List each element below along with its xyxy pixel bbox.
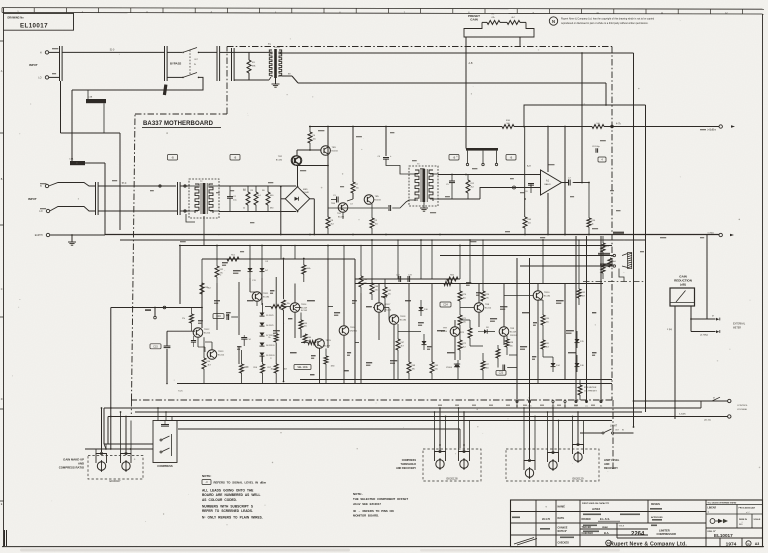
svg-text:B.A.: B.A. (604, 531, 609, 535)
svg-text:BC109: BC109 (510, 331, 517, 333)
capacitor C1A (70, 161, 85, 165)
svg-text:TOL. UNLESS OTHERWISE STATED: TOL. UNLESS OTHERWISE STATED (708, 502, 738, 505)
screen bus pins (467, 151, 469, 163)
svg-text:C15: C15 (153, 345, 158, 348)
wire T1 secondary bottom (282, 75, 292, 77)
svg-text:MONITOR BOARD.: MONITOR BOARD. (353, 514, 379, 518)
motherboard boundary extension below (612, 400, 614, 470)
sidechain col x217 (216, 283, 218, 330)
pot pins 1 (100, 452, 102, 454)
wire bridge left vertical (281, 198, 286, 200)
svg-text:15k: 15k (304, 325, 307, 327)
diode D15 (575, 339, 580, 343)
terminal ext meter upper (716, 318, 719, 321)
wire preset gain drop A-B (465, 37, 467, 149)
wire vertical x120 (119, 133, 121, 230)
title block right grid (705, 500, 707, 547)
sidechain link f (470, 345, 483, 347)
svg-text:TR10: TR10 (544, 292, 550, 294)
sidechain link a (295, 307, 301, 309)
svg-text:27k: 27k (182, 318, 185, 320)
stub drops far right (469, 240, 471, 284)
potentiometer RV5 (525, 469, 533, 477)
svg-text:TR17: TR17 (385, 304, 391, 306)
wire meter jog (619, 269, 624, 282)
board edge pin row (516, 400, 518, 402)
resistor R60 (303, 334, 307, 343)
resistor R12 shunt (466, 180, 470, 193)
bottom bus y416 (108, 416, 675, 418)
sheet border top band (2, 8, 764, 10)
terminal control lower (728, 415, 731, 418)
svg-text:APPROVED: APPROVED (651, 516, 663, 519)
drawing number box (4, 13, 74, 30)
title block outer frame (511, 500, 763, 547)
terminal control upper (728, 399, 731, 402)
wire C15 column (154, 308, 156, 317)
board edge pin row2 (516, 403, 518, 408)
diode chain D5 (260, 313, 265, 317)
connector bars bypass in (164, 46, 166, 81)
svg-text:NUMBERS WITH SUBSCRIPT S: NUMBERS WITH SUBSCRIPT S (202, 505, 253, 509)
svg-text:C24: C24 (443, 304, 448, 307)
sidechain col x361 (360, 293, 362, 384)
BA337 motherboard boundary (dash-dot) (227, 46, 612, 48)
wire T3 ground stem (423, 202, 425, 208)
capacitor C4 electrolytic (383, 157, 389, 159)
bottom bus left drop2 (107, 417, 109, 445)
meter M1 needle (676, 291, 686, 303)
svg-text:BYPASS: BYPASS (170, 62, 181, 66)
svg-text:EL10017: EL10017 (20, 23, 48, 30)
svg-text:10103: 10103 (274, 47, 280, 49)
pin opamp input (513, 186, 516, 189)
wire light right (614, 432, 634, 434)
capacitor C1B (86, 99, 106, 103)
bracket RV3 (435, 452, 446, 462)
svg-text:EARTH: EARTH (35, 234, 43, 237)
svg-text:REFERS TO SIGNAL LEVEL IN dBm: REFERS TO SIGNAL LEVEL IN dBm (214, 481, 267, 485)
sidechain col x328 (327, 259, 329, 348)
resistor R57 (274, 364, 278, 373)
transformer T1 core (274, 49, 277, 78)
bus wire y234 (105, 234, 719, 236)
svg-text:LO: LO (39, 211, 42, 213)
svg-text:EK20128: EK20128 (446, 477, 458, 481)
resistor R49 (523, 217, 527, 228)
wire y444 into bus (104, 444, 106, 449)
wire bypass lower loop (72, 77, 203, 90)
svg-text:N: N (552, 19, 555, 24)
transistor TR7 (450, 327, 460, 337)
bracket RV5 (524, 461, 535, 471)
svg-text:COMPRESS: COMPRESS (402, 459, 417, 462)
svg-text:47k: 47k (220, 272, 223, 274)
svg-text:REFER TO SCREENED LEADS.: REFER TO SCREENED LEADS. (202, 509, 253, 513)
sheet border bottom edge (2, 546, 764, 548)
right vertical x645 (645, 105, 647, 412)
resistor R24 series (444, 282, 452, 286)
svg-text:BC214: BC214 (485, 307, 492, 309)
transformer T1 primary winding (269, 50, 272, 77)
svg-text:EL10017: EL10017 (714, 533, 733, 538)
pots dashed box EK20129 (506, 449, 599, 481)
bus wire y245 (179, 245, 612, 247)
wire drop x635 to output line (633, 53, 635, 127)
sidechain link e (460, 307, 475, 309)
resistor R55 (240, 364, 244, 373)
sidechain bottom wire y379 (300, 379, 612, 381)
diode D3 (248, 268, 253, 272)
feedback loop rail (524, 105, 646, 127)
terminal output hot (719, 125, 722, 128)
svg-text:1k: 1k (592, 223, 594, 225)
svg-text:2N3702: 2N3702 (510, 335, 518, 337)
wire T3 out upper (438, 174, 541, 176)
transformer T2 primary winding (195, 184, 199, 213)
diode D8 lateral (484, 329, 487, 333)
capacitor C6 opamp (528, 183, 534, 185)
svg-text:BC109: BC109 (324, 345, 331, 347)
switch control (712, 397, 720, 401)
diode chain stem (262, 303, 264, 313)
switch bypass lower pole (182, 77, 184, 79)
resistor R58c (282, 300, 286, 310)
meter section boundary (dash-dot) (583, 281, 646, 283)
pots dashed box EK20128 (423, 449, 481, 481)
wire left feed drop (110, 308, 112, 450)
diode chain D9 (260, 353, 265, 357)
terminal output lo (719, 233, 722, 236)
capacitor C8 (595, 148, 597, 152)
resistor R9 (370, 218, 374, 228)
transistor TR13 (207, 350, 217, 360)
diode D13 (454, 364, 458, 367)
svg-text:NOTE:: NOTE: (202, 474, 211, 478)
wire drop x606 (605, 83, 607, 105)
resistor R72 (458, 340, 462, 350)
bus wire y240 (120, 239, 646, 241)
resistor chain right b (608, 258, 612, 267)
wire TR12 base link (167, 330, 195, 332)
stub drops right cluster (360, 246, 362, 271)
boxed label -B mid left (230, 155, 240, 161)
sidechain col x283 (283, 259, 285, 300)
resistor R6 (266, 192, 270, 205)
title block title grid (616, 523, 618, 538)
svg-text:PROG.ANGULAR: PROG.ANGULAR (739, 507, 756, 510)
wire input2 main to board (98, 185, 176, 187)
sidechain col x301 (300, 330, 302, 338)
svg-text:D: D (1, 398, 3, 401)
scan smudge bottom (20, 549, 350, 552)
transformer T3 primary winding (415, 170, 419, 201)
transistor TR5 (364, 195, 374, 205)
transistor TR16 (339, 326, 349, 336)
svg-text:NOTE:-: NOTE:- (353, 492, 363, 496)
transformer T2 secondary winding (209, 184, 213, 213)
transformer T3 core (422, 169, 425, 202)
wire vertical x105 (104, 163, 106, 235)
resistor R27 (481, 361, 485, 370)
sidechain vert x355 (354, 259, 356, 384)
resistor chain right c (601, 264, 605, 273)
compress switch cap (161, 424, 169, 426)
transformer T2 screen box (189, 179, 219, 218)
title block used-on grid (580, 511, 706, 513)
note 1 boxed symbol (202, 480, 211, 485)
sidechain vert x576 (575, 236, 577, 403)
right vertical x633 (633, 104, 635, 427)
svg-text:15k: 15k (356, 187, 359, 189)
svg-text:MR1: MR1 (303, 189, 308, 191)
svg-text:A/503: A/503 (592, 507, 600, 511)
capacitor C16 (226, 314, 228, 320)
svg-text:(dB): (dB) (680, 283, 686, 287)
svg-text:BC214: BC214 (218, 354, 225, 356)
terminal ext meter lower (716, 330, 719, 333)
wire x386 vertical (385, 127, 387, 157)
scan speckles (477, 409, 478, 410)
wire input1 lo (49, 76, 59, 78)
wire input2 lo (50, 207, 95, 212)
resistor R30 (541, 315, 545, 325)
svg-text:A-B: A-B (527, 165, 531, 168)
connector bars board edge out (216, 46, 218, 81)
wire emitter row y165 (296, 165, 328, 167)
resistor R7 (351, 182, 355, 193)
capacitor C23 (407, 276, 409, 282)
resistor R6a collector (308, 132, 312, 143)
wire control lower (675, 416, 728, 418)
wire preset gain top (482, 21, 487, 23)
sidechain left frame vert (179, 246, 181, 305)
sheet border right edge (762, 14, 764, 547)
pot pins EK20129 (528, 459, 530, 461)
svg-text:COMPRESSOR: COMPRESSOR (657, 532, 676, 536)
transformer T2 pin wires (190, 185, 198, 187)
resistor R63 (359, 276, 363, 287)
transistor TR3 (321, 146, 331, 156)
svg-text:LINEAR: LINEAR (708, 507, 717, 510)
resistor R56 (261, 364, 265, 373)
svg-text:C1A: C1A (69, 158, 74, 161)
potentiometer RV2 (122, 462, 130, 470)
svg-text:≤5mV SEE EZ10017: ≤5mV SEE EZ10017 (353, 502, 381, 506)
wire input1 to bypass (62, 51, 165, 53)
transistor TR12 (193, 328, 203, 338)
wire RV4 feeds (463, 412, 465, 450)
diode D10 (419, 307, 424, 311)
capacitor C17b (191, 340, 196, 342)
transformer T1 secondary winding (279, 50, 282, 77)
switch light (602, 432, 604, 434)
svg-text:74-S: 74-S (178, 391, 183, 393)
svg-text:(CR): (CR) (528, 406, 532, 408)
capacitor C5 coupling (449, 180, 455, 182)
svg-text:BC214: BC214 (204, 332, 211, 334)
resistor R5 (254, 192, 258, 205)
pot pins EK20128 (439, 450, 441, 452)
svg-text:DATE: DATE (558, 517, 565, 520)
wire y444 left (104, 443, 153, 445)
sidechain col x295 (294, 284, 296, 303)
bracket RV7 (573, 445, 584, 455)
connector bars input2 (95, 182, 97, 215)
resistor R54 (202, 358, 206, 369)
bottom bus y420 (160, 420, 612, 422)
svg-text:10048: 10048 (303, 192, 309, 194)
svg-text:ZS100: ZS100 (446, 367, 453, 369)
sidechain link h (543, 356, 553, 358)
transistor TR15 (315, 339, 325, 349)
svg-text:15k: 15k (287, 303, 290, 305)
resistor R10 series output (502, 125, 514, 129)
bottom bus left drop1 (103, 408, 105, 444)
svg-text:DRAWN: DRAWN (582, 518, 591, 521)
resistor R28 (505, 339, 509, 347)
pin T2 in top (184, 185, 186, 187)
transistor TR4 (338, 203, 348, 213)
svg-text:-B: -B (171, 157, 174, 160)
meter feed vert x707 (706, 235, 708, 320)
svg-text:EXTERNAL: EXTERNAL (733, 323, 746, 326)
svg-text:INPUT: INPUT (29, 63, 38, 67)
wire T2 out bottom (219, 211, 296, 213)
capacitor C22 (398, 276, 400, 282)
svg-text:EK20129: EK20129 (572, 477, 584, 481)
wire y429 compress (178, 428, 460, 430)
svg-text:TR15: TR15 (326, 340, 332, 342)
terminal input1 HI (45, 51, 48, 54)
svg-text:DRAWING No: DRAWING No (8, 17, 25, 20)
potentiometer RV4 (460, 460, 468, 468)
potentiometer RV3 (436, 460, 444, 468)
junction bridge top (297, 186, 299, 188)
op-amp supply wire lower (547, 193, 549, 235)
svg-text:LIGHT: LIGHT (610, 425, 618, 428)
svg-text:4-7k: 4-7k (616, 123, 621, 126)
svg-text:18k: 18k (412, 368, 415, 370)
sidechain link i (355, 342, 359, 344)
svg-text:AS COLOUR CODED.: AS COLOUR CODED. (202, 498, 237, 502)
terminal input1 LO (45, 76, 48, 79)
pin sidechain a (163, 306, 166, 309)
wire meter right (690, 306, 692, 332)
svg-text:NOTE Nº: NOTE Nº (558, 530, 568, 533)
sheet border top tick marks (1, 8, 3, 13)
svg-text:reproduced or disclosed in par: reproduced or disclosed in part or whole… (561, 22, 649, 25)
diode D16 (575, 363, 580, 367)
svg-text:TRACED: TRACED (582, 526, 592, 529)
wire control upper (634, 400, 728, 402)
wire C1B stems (87, 90, 89, 99)
svg-text:3-5(M): 3-5(M) (679, 414, 686, 416)
svg-text:-B: -B (510, 157, 513, 160)
wire bridge out to T3 lower (328, 207, 388, 209)
transistor TR11 (252, 292, 262, 302)
wire TR2 TR3 link (296, 150, 298, 156)
svg-text:SEL 100k: SEL 100k (297, 366, 308, 369)
svg-text:56k: 56k (510, 345, 513, 347)
preset gain loop box (464, 22, 534, 37)
resistor R58b (274, 334, 278, 342)
svg-text:22k: 22k (375, 289, 378, 291)
ground T1 centre tap (275, 78, 277, 84)
svg-text:TITLE: TITLE (619, 526, 625, 528)
choke meter feed (628, 253, 632, 269)
transistor TR17 (374, 303, 384, 313)
sidechain col x455 (454, 337, 456, 361)
transistor TR10 (533, 291, 543, 301)
connector bars board input2 (177, 182, 179, 215)
switch bypass mechanical link (189, 50, 191, 75)
sidechain top wire y259 (202, 258, 355, 260)
diode D11 (422, 341, 427, 345)
svg-text:NAME: NAME (558, 506, 566, 509)
svg-text:(4.7MΩ): (4.7MΩ) (700, 335, 708, 337)
switch bypass upper pole (167, 51, 182, 53)
wire TR3 base (310, 149, 321, 151)
capacitor C15 (164, 345, 171, 347)
misc wire jogs (196, 327, 198, 329)
op-amp supply wire upper (547, 127, 549, 172)
wire board to T1 top (220, 51, 234, 53)
resistor R50 (587, 218, 591, 227)
wire y133 link (61, 132, 121, 134)
cable marker bypass loop (163, 84, 168, 95)
svg-text:CHECKED: CHECKED (558, 543, 570, 545)
svg-text:56k: 56k (364, 282, 367, 284)
sheet border bottom-left double mark (4, 530, 6, 546)
svg-text:E.L.S.S.: E.L.S.S. (600, 517, 610, 521)
svg-text:10k: 10k (388, 293, 391, 295)
svg-text:INS: INS (739, 524, 743, 526)
svg-text:BC184: BC184 (338, 216, 345, 218)
junction rail x310 (309, 126, 311, 128)
sidechain vert x586 (586, 236, 588, 403)
bus junction dots (309, 234, 311, 236)
svg-text:BC184: BC184 (544, 295, 551, 297)
wire bypass feed drop x582 (581, 53, 583, 183)
sidechain col x379 (378, 313, 380, 341)
resistor R70 (458, 291, 462, 301)
transformer T2 core (203, 183, 206, 214)
resistor R2 preset (507, 20, 520, 24)
boxed label 4 (598, 157, 606, 162)
svg-text:BC109: BC109 (301, 310, 308, 312)
svg-text:RECOVERY: RECOVERY (604, 467, 618, 470)
svg-text:DIMS IN: DIMS IN (739, 519, 747, 521)
Neve logo roundel (549, 17, 557, 25)
wire output line right (604, 126, 719, 128)
sidechain link d (504, 295, 534, 297)
svg-text:BC184: BC184 (276, 159, 283, 161)
title block revision grid (511, 511, 581, 513)
connector bars input1 (59, 46, 61, 81)
diode chain D7 (260, 333, 265, 337)
resistor R32 (577, 289, 581, 298)
wire x328 vertical (327, 127, 329, 218)
bottom bus y412 (135, 411, 642, 413)
svg-text:D8 ZS120: D8 ZS120 (266, 345, 275, 347)
resistor R52 (215, 266, 219, 277)
potentiometer RV7 (574, 453, 582, 461)
diode D14 (551, 363, 556, 367)
wire y266 to edge pin (520, 265, 613, 267)
bracket RV1 (96, 454, 107, 464)
svg-text:30 → REFERS TO PINS ON: 30 → REFERS TO PINS ON (353, 509, 394, 513)
